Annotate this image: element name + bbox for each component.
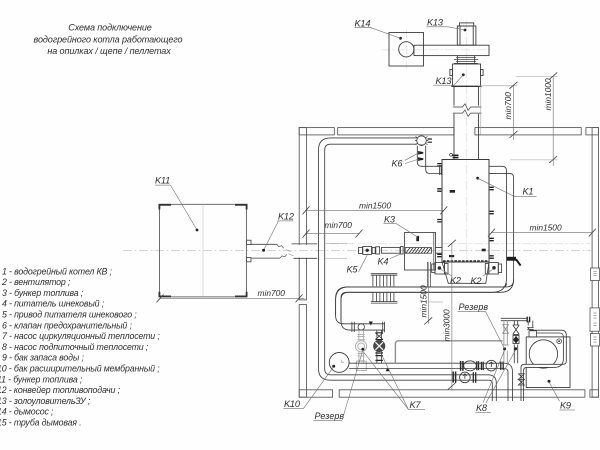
- svg-text:min3000: min3000: [442, 309, 452, 341]
- label K5: [347, 254, 369, 275]
- conveyor K12 flange tabs: [247, 240, 251, 244]
- feeder K4 coupling tube: [382, 247, 401, 253]
- fuel hopper K3 box: [405, 233, 436, 271]
- screw feeder K4 drive motor K5: [359, 246, 380, 254]
- ash catcher K13 right tab: [481, 70, 484, 76]
- return run under boiler: [349, 279, 514, 292]
- flow triangle on pipe U: [386, 368, 390, 372]
- label K1: [476, 177, 536, 197]
- svg-text:Резерв: Резерв: [459, 302, 489, 312]
- conveyor K12 break symbol: [277, 244, 287, 258]
- return run elbow down at left: [336, 287, 349, 313]
- K8 lower run fittings: [453, 372, 476, 383]
- top wall segment 4: [586, 128, 599, 135]
- svg-text:14 - дымосос ;: 14 - дымосос ;: [0, 407, 54, 417]
- make-up water unit top bar: [501, 318, 527, 320]
- label K3: [384, 214, 420, 238]
- svg-text:4 - питатель шнековый ;: 4 - питатель шнековый ;: [2, 299, 105, 309]
- legend list: [0, 266, 160, 427]
- svg-text:15 - труба дымовая .: 15 - труба дымовая .: [0, 418, 81, 428]
- dimension min1500 right: [488, 223, 596, 237]
- pipe U elbow down through wall: [504, 363, 513, 401]
- boiler K1 body: [442, 160, 489, 263]
- dimension min700 left: [303, 220, 363, 237]
- svg-text:K3: K3: [384, 214, 396, 224]
- K2 fan left: [432, 263, 448, 275]
- label K8: [476, 350, 516, 413]
- K10 inner fitting: [341, 360, 344, 362]
- bunker K11 inner fold line: [202, 204, 204, 297]
- riser into pump manifold: [336, 313, 341, 321]
- left wall upper: [299, 128, 306, 300]
- conveyor wall crossing mask: [298, 245, 318, 258]
- svg-text:1 - водогрейный котел КВ ;: 1 - водогрейный котел КВ ;: [2, 266, 113, 276]
- tank K9 circle: [529, 340, 557, 368]
- svg-text:K8: K8: [476, 403, 488, 413]
- ash catcher bottom flange: [452, 85, 482, 87]
- manifold flange pair: [352, 322, 354, 332]
- fuel bunker K11: [159, 204, 246, 297]
- title block text: [34, 23, 183, 56]
- tank drain valves: [518, 374, 524, 385]
- svg-text:K2: K2: [471, 276, 482, 286]
- expansion tank K10: [329, 353, 349, 373]
- make-up branch right: [513, 321, 519, 364]
- feeder outlet stub to boiler: [436, 248, 443, 254]
- boiler K1 grate line: [443, 260, 489, 262]
- manifold valve circle: [358, 324, 364, 330]
- svg-text:водогрейного котла работающего: водогрейного котла работающего: [34, 34, 183, 44]
- svg-text:8 - насос подпиточный теплос: 8 - насос подпиточный теплосети ;: [2, 342, 149, 352]
- conveyor K12 tube right part: [292, 244, 318, 258]
- boiler K1 right flange ticks: [490, 187, 494, 258]
- chimney column below ash box: [454, 87, 479, 160]
- svg-text:min1500: min1500: [359, 200, 391, 210]
- safety valve K6 assembly: [415, 136, 432, 146]
- flow triangle on manifold: [369, 322, 373, 326]
- K6 flow arrows: [418, 151, 423, 161]
- svg-text:13 - золоуловительЗУ ;: 13 - золоуловительЗУ ;: [0, 396, 91, 406]
- top wall segment 1: [299, 128, 334, 135]
- bottom wall segment 2: [339, 390, 585, 397]
- svg-text:K6: K6: [392, 158, 404, 168]
- inlet flange at boiler: [440, 165, 442, 175]
- svg-text:Резерв: Резерв: [315, 411, 345, 421]
- centerline conveyor axis: [123, 249, 592, 251]
- gray reserve feed line: [395, 341, 502, 363]
- svg-text:Схема подключение: Схема подключение: [68, 23, 152, 33]
- dimension min1500 vertical middle: [419, 262, 444, 325]
- support leg under hopper: [428, 262, 431, 287]
- dimension min3000 vertical: [442, 240, 456, 391]
- svg-text:K1: K1: [523, 187, 534, 197]
- svg-text:3 - бункер топлива ;: 3 - бункер топлива ;: [2, 288, 84, 298]
- boiler ash pan trapezoid: [442, 262, 489, 283]
- top wall segment 2: [338, 128, 454, 135]
- pump branch 2 (duty): [374, 330, 385, 363]
- bunker K11 corner brackets: [159, 205, 246, 297]
- centerline boiler lower axis: [330, 243, 592, 245]
- ash catcher K13 box: [453, 64, 481, 87]
- conveyor K12 tube fading into room: [326, 243, 347, 258]
- svg-text:K13: K13: [427, 17, 444, 27]
- black shutoff valve on outlet: [507, 257, 516, 261]
- valve handle: [516, 259, 521, 265]
- pipe to K6 from riser B: [331, 138, 417, 144]
- label K14: [355, 18, 402, 39]
- svg-text:K12: K12: [278, 212, 294, 222]
- flue duct horizontal: [414, 45, 489, 55]
- make-up branch left to manifold: [504, 351, 507, 364]
- pipe U from K10 to K8: [349, 363, 504, 368]
- electrical panel boxes on right wall: [590, 268, 600, 346]
- boiler K1 left flange ticks: [437, 164, 441, 257]
- K8 upper run fittings: [461, 360, 504, 371]
- tank K9 pipe loop: [521, 321, 566, 401]
- label K7: [364, 353, 425, 411]
- storage tank K9 box: [526, 337, 570, 388]
- label Rezerv bottom left: [314, 350, 363, 421]
- label K13 upper: [427, 17, 467, 31]
- svg-text:min1000: min1000: [543, 78, 553, 110]
- label K4: [378, 254, 403, 267]
- label K13 lower: [434, 73, 465, 86]
- extension line from ash catcher down to wall: [480, 87, 482, 135]
- svg-text:11 - бункер топлива ;: 11 - бункер топлива ;: [0, 374, 83, 384]
- svg-text:на опилках / щепе / пеллетах: на опилках / щепе / пеллетах: [47, 46, 171, 56]
- svg-text:min700: min700: [258, 288, 286, 298]
- label Rezerv top right: [458, 302, 505, 349]
- svg-text:9 - бак запаса воды ;: 9 - бак запаса воды ;: [2, 353, 84, 363]
- tank inlet fitting: [527, 328, 536, 337]
- svg-text:K4: K4: [378, 256, 389, 266]
- boiler outlet pipe right side down: [336, 166, 514, 321]
- chimney break symbol: [452, 106, 481, 114]
- feeder K4 flange: [401, 247, 404, 254]
- dimension min700 bottom under bunker: [157, 288, 305, 303]
- smoke exhauster K14 box: [389, 33, 424, 67]
- left wall lower: [299, 305, 306, 398]
- svg-text:12 - конвейер топливоподачи: 12 - конвейер топливоподачи ;: [0, 385, 121, 395]
- svg-text:K10: K10: [284, 399, 301, 409]
- svg-text:10 - бак расширительный мемб: 10 - бак расширительный мембранный ;: [0, 364, 160, 374]
- boiler K1 inner arrow marks: [449, 190, 486, 257]
- smoke exhauster K14 fan circle: [399, 42, 414, 57]
- svg-text:min1500: min1500: [419, 285, 429, 317]
- svg-text:6 - клапан предохранительный: 6 - клапан предохранительный ;: [2, 320, 132, 330]
- room walls: [299, 128, 598, 398]
- centerline K14 vertical: [405, 29, 407, 69]
- dimension min1500 top middle: [303, 200, 448, 214]
- bottom wall segment 3: [590, 390, 599, 397]
- ash catcher K13 left tab: [450, 70, 453, 76]
- label K10: [284, 367, 334, 409]
- svg-text:2 - вентилятор ;: 2 - вентилятор ;: [1, 277, 71, 287]
- label K12: [262, 212, 294, 252]
- hopper inner edge: [433, 233, 435, 271]
- make-up branch left (reserve): [503, 321, 509, 345]
- K2 fan right: [485, 263, 501, 275]
- label K6: [392, 153, 420, 169]
- boiler K1 top fitting: [450, 153, 453, 156]
- top wall segment 3: [475, 128, 581, 135]
- svg-text:K13: K13: [436, 76, 453, 86]
- screw section hatched: [405, 248, 431, 254]
- svg-text:K9: K9: [560, 401, 571, 411]
- boiler inlet pipe from K6: [417, 146, 442, 174]
- label K11: [155, 176, 198, 232]
- tank vent small circle: [557, 339, 562, 344]
- ladder: [371, 274, 398, 303]
- hopper inlet mark: [416, 238, 419, 241]
- pump branch 1 (reserve, gray): [356, 330, 367, 371]
- tank K9 leader dot: [548, 380, 551, 383]
- svg-text:min700: min700: [325, 220, 353, 230]
- svg-text:K14: K14: [355, 18, 371, 28]
- conveyor K12 tube left part: [251, 244, 280, 258]
- right wall: [592, 128, 598, 398]
- svg-text:7 - насос циркуляционный теп: 7 - насос циркуляционный теплосети ;: [2, 331, 160, 341]
- pipe L elbow down through wall: [488, 375, 496, 401]
- heating return riser B along left wall: [319, 138, 331, 380]
- pipe L lower run: [330, 375, 489, 380]
- make-up bar end flanges: [527, 317, 529, 323]
- svg-text:K5: K5: [347, 264, 359, 274]
- label K9: [549, 382, 575, 411]
- svg-text:K11: K11: [155, 176, 170, 186]
- dimension min1000 vertical: [510, 72, 558, 166]
- centerline duct horizontal: [381, 49, 492, 51]
- pump manifold M: [336, 316, 385, 331]
- flange stack between duct and K13: [454, 56, 478, 64]
- manifold end cap: [383, 322, 385, 332]
- svg-text:K7: K7: [410, 400, 422, 410]
- tank K9 pipe loop mask: [523, 352, 565, 366]
- bottom wall segment 1: [299, 390, 332, 397]
- centerline chimney vertical: [465, 21, 467, 260]
- svg-text:min700: min700: [503, 92, 513, 120]
- labels K2 K2: [441, 270, 493, 287]
- chimney top box K13 upper: [457, 23, 476, 45]
- svg-text:min1500: min1500: [530, 223, 562, 233]
- svg-text:5 - привод питателя шнековог: 5 - привод питателя шнекового ;: [2, 310, 137, 320]
- dimension min700 vertical chimney: [478, 82, 517, 140]
